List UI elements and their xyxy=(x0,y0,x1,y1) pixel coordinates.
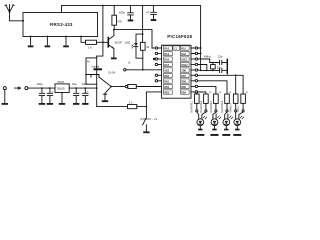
svg-text:RB6: RB6 xyxy=(181,81,186,83)
wire regulator out xyxy=(69,87,97,89)
node collector junction xyxy=(113,29,115,31)
resistor R6 xyxy=(214,94,219,103)
resistor R2 47k xyxy=(112,6,123,30)
wire pin1 down xyxy=(30,37,32,45)
resistor R1 1k xyxy=(86,40,97,49)
node module data pin xyxy=(80,36,82,38)
wire +5V to R11 to node xyxy=(97,106,147,108)
ground xyxy=(63,45,69,47)
svg-text:RB4: RB4 xyxy=(181,91,186,94)
ground xyxy=(39,103,45,105)
value labels xyxy=(200,92,249,94)
resistor R8 xyxy=(233,94,238,103)
resistor R9 xyxy=(241,94,246,103)
wire collector to PIC RA2 xyxy=(114,30,155,48)
node rail at R2 xyxy=(113,5,115,7)
pin name boxes left column xyxy=(164,46,173,94)
svg-text:OHKK m: OHKK m xyxy=(231,103,233,112)
svg-text:Impuls: Impuls xyxy=(92,65,100,69)
LED D1 xyxy=(197,112,207,129)
switch S contact to ground xyxy=(103,86,112,100)
wire +5V top rail xyxy=(62,5,201,7)
node base / +5V riser crossing xyxy=(102,41,104,43)
svg-text:PIC16F628: PIC16F628 xyxy=(167,34,192,39)
wire switch node to R10 to RB2 xyxy=(111,86,125,88)
regulator IC2 78L05 xyxy=(55,81,69,103)
resistor R10 10k xyxy=(128,85,137,89)
wire RB7 xyxy=(198,75,244,94)
svg-text:OSC2: OSC2 xyxy=(181,65,188,67)
wire data pin to R1 xyxy=(81,37,86,43)
wire antenna to module xyxy=(10,12,24,21)
LED D3 xyxy=(223,112,233,129)
pushbutton S5 xyxy=(143,107,147,132)
node rail at +5V riser xyxy=(102,5,104,7)
wire +5V riser xyxy=(97,6,103,57)
svg-text:NAAR RE4: NAAR RE4 xyxy=(221,100,224,112)
svg-text:VSS: VSS xyxy=(164,70,169,72)
wire RB3 to pushbutton node xyxy=(146,92,161,107)
capacitor C5 xyxy=(72,82,79,102)
svg-text:OSC1: OSC1 xyxy=(181,59,188,61)
svg-text:RA5: RA5 xyxy=(164,64,169,67)
svg-text:100n: 100n xyxy=(119,10,126,14)
pads under resistors xyxy=(196,103,245,112)
wire +5V right riser xyxy=(200,6,202,71)
ground xyxy=(102,100,108,102)
ground xyxy=(73,103,79,105)
ground xyxy=(28,45,34,47)
svg-text:1 k: 1 k xyxy=(129,101,133,105)
node pushbutton xyxy=(146,106,148,108)
svg-text:RB5: RB5 xyxy=(181,87,186,89)
wire pin3 down xyxy=(65,37,67,45)
svg-text:1Om1: 1Om1 xyxy=(238,106,240,113)
wire RB5 xyxy=(198,86,216,94)
svg-text:VDD: VDD xyxy=(181,70,186,72)
svg-text:RA1: RA1 xyxy=(181,47,186,50)
svg-text:RB1: RB1 xyxy=(164,81,169,83)
svg-text:4x: 4x xyxy=(87,60,91,64)
LED D4 xyxy=(234,112,244,129)
crystal X1 network xyxy=(198,54,228,73)
wire pin2 down xyxy=(46,37,48,45)
power input terminal plus xyxy=(25,87,28,90)
resistor R3 1k xyxy=(140,34,149,70)
mode select block 4x xyxy=(85,58,116,86)
node rail at C4 xyxy=(153,5,155,7)
svg-text:RA0: RA0 xyxy=(181,53,186,56)
pin name boxes right column xyxy=(180,46,189,94)
resistor R7 xyxy=(225,94,230,103)
wire +5V riser from regulator xyxy=(96,84,98,106)
capacitor C2 xyxy=(47,87,54,102)
node rail at LED feed xyxy=(142,5,144,7)
wire RB4 xyxy=(198,92,206,94)
svg-text:RA4: RA4 xyxy=(164,58,169,61)
svg-text:1 k: 1 k xyxy=(88,46,93,50)
svg-text:RB3: RB3 xyxy=(164,92,169,94)
node antenna-module junction xyxy=(22,20,24,22)
ground xyxy=(45,45,51,47)
node module pin 3 xyxy=(65,36,67,38)
node module pin 1 xyxy=(30,36,32,38)
svg-text:100n: 100n xyxy=(82,82,88,86)
node LED/resistor top xyxy=(142,33,144,35)
svg-text:040360 - 11: 040360 - 11 xyxy=(141,117,158,121)
node rail at C3 xyxy=(130,5,132,7)
svg-text:RRS3-433: RRS3-433 xyxy=(50,22,73,27)
capacitor C4 100n xyxy=(146,6,156,19)
svg-text:47k: 47k xyxy=(117,19,122,23)
ground xyxy=(2,103,8,105)
wire Vcc stub to rail xyxy=(61,6,63,13)
ground xyxy=(211,129,219,136)
ground xyxy=(82,103,88,105)
svg-text:22p: 22p xyxy=(217,65,222,69)
node LED net to VSS row wire xyxy=(142,69,144,71)
ground xyxy=(233,129,241,136)
svg-text:LED: LED xyxy=(125,41,130,45)
svg-text:4MHz: 4MHz xyxy=(204,54,211,58)
ground xyxy=(222,129,230,136)
LED D2 xyxy=(211,112,221,129)
pin stubs right with circles xyxy=(191,47,202,93)
transistor T1 xyxy=(108,30,123,57)
capacitor C3 100n xyxy=(119,6,134,20)
node module pin 2 xyxy=(47,36,49,38)
microcontroller IC1 PIC16F628 xyxy=(162,34,193,98)
wire input to regulator xyxy=(28,87,55,89)
ground xyxy=(151,19,157,21)
svg-text:RB7: RB7 xyxy=(181,76,186,78)
pin open circle left end xyxy=(124,69,126,71)
wire R1 to base xyxy=(97,41,108,43)
svg-text:NAAR RE2: NAAR RE2 xyxy=(200,100,203,112)
svg-text:NAAR RE1: NAAR RE1 xyxy=(191,100,194,112)
ground emitter xyxy=(111,57,117,59)
ground xyxy=(143,131,149,133)
svg-text:BC547: BC547 xyxy=(115,41,123,44)
receiver module RRS3-433 xyxy=(23,13,98,37)
ground xyxy=(59,103,65,105)
svg-text:78L05: 78L05 xyxy=(57,86,65,90)
node VDD xyxy=(200,70,202,72)
wire to R4 xyxy=(196,93,198,94)
svg-text:RB2: RB2 xyxy=(164,87,169,89)
antenna xyxy=(5,5,14,13)
resistor R11 10k xyxy=(128,101,137,109)
ground xyxy=(47,103,53,105)
wire RB6 xyxy=(198,81,227,94)
wire long pin wire row5 xyxy=(126,69,162,71)
ground xyxy=(196,129,204,136)
rotated designator labels xyxy=(191,100,240,112)
resistor R4 xyxy=(195,94,200,103)
svg-text:22p: 22p xyxy=(218,54,223,58)
svg-text:100µ: 100µ xyxy=(37,82,44,86)
svg-text:S1-S4: S1-S4 xyxy=(108,71,116,75)
pin stubs left with circles xyxy=(155,47,161,82)
arrow power flow xyxy=(15,87,21,89)
svg-text:RB0: RB0 xyxy=(164,76,169,78)
LED D5 xyxy=(125,41,143,59)
power input terminal minus xyxy=(3,87,6,103)
capacitor C1 xyxy=(37,82,45,102)
svg-text:RA3: RA3 xyxy=(164,53,169,56)
svg-text:RA2: RA2 xyxy=(164,47,169,50)
ground xyxy=(128,20,134,22)
capacitor C6 xyxy=(82,82,90,102)
node small blob RA4 xyxy=(153,58,155,60)
wire LED feed from rail xyxy=(136,6,143,43)
svg-text:78L05: 78L05 xyxy=(57,81,64,84)
resistor R5 xyxy=(204,94,209,103)
svg-text:10µ: 10µ xyxy=(72,82,77,86)
svg-text:NAAR RE3: NAAR RE3 xyxy=(210,100,213,112)
